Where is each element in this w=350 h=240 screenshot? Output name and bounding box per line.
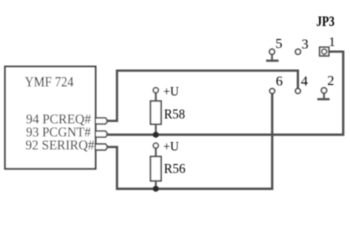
svg-text:5: 5 <box>275 37 282 52</box>
wire R56 bottom stub <box>155 181 157 189</box>
svg-text:R56: R56 <box>164 162 186 177</box>
JP3 pin 2 <box>321 88 326 93</box>
svg-text:3: 3 <box>302 38 309 53</box>
svg-text:+U: +U <box>163 139 179 154</box>
JP3 pin 5 <box>269 49 274 54</box>
wire net SERIRQ# : pin92 to JP3 pin6 <box>106 94 272 189</box>
JP3 pin 4 <box>295 89 300 94</box>
JP3 pin 3 <box>295 49 300 54</box>
wire net PCGNT# : pin93 to JP3 pin1 <box>106 52 343 135</box>
svg-text:JP3: JP3 <box>316 14 334 30</box>
wire R56 top stub <box>155 148 157 156</box>
wire R58 top stub <box>155 93 157 101</box>
resistor R56 body <box>151 157 162 181</box>
resistor R56 supply terminal +U <box>153 143 158 148</box>
resistor R58 body <box>151 101 162 124</box>
wire net PCREQ# : pin94 to JP3 pin4 <box>106 71 298 121</box>
pin stub 93 <box>95 131 108 137</box>
wire R58 bottom stub <box>155 124 157 135</box>
pin stub 92 <box>95 144 108 150</box>
junction dot R58/PCGNT# <box>153 132 159 138</box>
resistor R58 supply terminal +U <box>153 88 158 93</box>
svg-text:YMF 724: YMF 724 <box>25 75 74 91</box>
pin 5 plug stub <box>271 54 273 59</box>
svg-text:6: 6 <box>276 74 283 89</box>
pin 2 plug stub <box>323 93 325 98</box>
svg-text:+U: +U <box>163 83 179 98</box>
IC YMF 724 box <box>5 67 96 169</box>
svg-text:92 SERIRQ#: 92 SERIRQ# <box>26 137 95 152</box>
junction dot R56/SERIRQ# <box>153 186 159 192</box>
svg-text:2: 2 <box>327 74 334 89</box>
JP3 pin 6 <box>270 89 275 94</box>
JP3 pin 1 <box>320 47 329 56</box>
svg-text:4: 4 <box>301 74 308 89</box>
svg-text:R58: R58 <box>164 108 185 123</box>
svg-text:1: 1 <box>329 34 336 49</box>
pin stub 94 <box>95 118 108 124</box>
